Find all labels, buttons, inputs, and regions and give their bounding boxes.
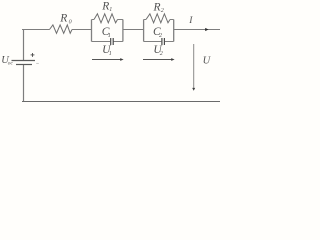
svg-text:R: R (153, 2, 161, 14)
svg-text:R: R (59, 13, 67, 25)
svg-text:oc: oc (8, 60, 14, 66)
svg-text:1: 1 (109, 51, 112, 57)
svg-text:R: R (101, 1, 109, 13)
svg-text:1: 1 (109, 7, 112, 13)
svg-text:2: 2 (159, 33, 162, 39)
svg-text:2: 2 (161, 8, 164, 14)
svg-text:1: 1 (108, 33, 111, 39)
svg-text:2: 2 (160, 51, 163, 57)
svg-text:0: 0 (69, 20, 72, 26)
